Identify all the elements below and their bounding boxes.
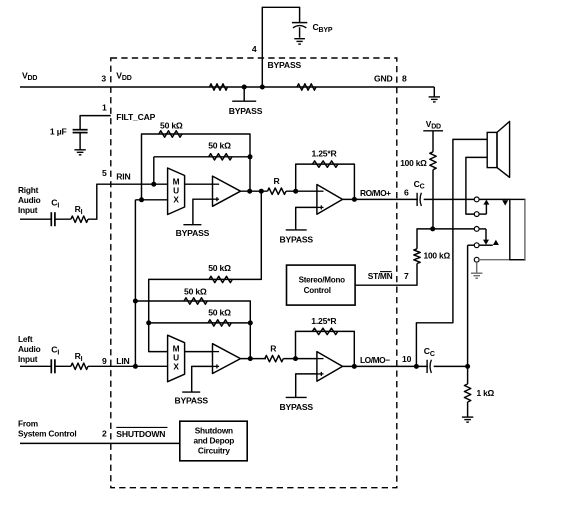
wire R to B2 (283, 358, 317, 360)
label Left Audio Input (18, 334, 41, 364)
resistor on rail left (210, 84, 228, 90)
pin 2 label (102, 429, 107, 439)
VDD rail bar (423, 130, 443, 132)
svg-text:1: 1 (102, 102, 107, 112)
junction dot fbB left (133, 299, 138, 304)
svg-text:RIN: RIN (116, 172, 130, 182)
svg-text:From: From (18, 419, 38, 429)
svg-text:50 kΩ: 50 kΩ (208, 140, 231, 150)
capacitor 1uF (73, 130, 88, 133)
wire 50k cross row (149, 191, 262, 323)
box Stereo/Mono Control (287, 265, 356, 305)
wire mux2 input (135, 199, 167, 201)
wire 50k fbB row (135, 301, 250, 359)
bypass tap mux B (174, 392, 208, 406)
svg-text:X: X (173, 194, 179, 204)
wire speaker minus (466, 157, 487, 214)
wire pin4 to top rail (262, 7, 299, 87)
label 1uF (50, 126, 67, 136)
label ST/MN (368, 271, 393, 281)
wire mux B to op (185, 351, 213, 353)
bypass tap A2 (279, 230, 313, 245)
resistor 1.25R lower (312, 328, 338, 334)
label 50k lower fbC (208, 307, 231, 317)
bypass tap B2 (279, 397, 313, 412)
junction dot A1 out (247, 189, 252, 194)
pin 1 label (102, 102, 107, 112)
junction dot LO jack node (465, 364, 470, 369)
ground under CBYP (294, 39, 305, 44)
svg-text:50 kΩ: 50 kΩ (208, 263, 231, 273)
junction dot B2 in (293, 356, 298, 361)
resistor 50k cross (209, 276, 232, 282)
switch arrow 1-2 (479, 200, 489, 215)
svg-text:System Control: System Control (18, 429, 77, 439)
wire left input (20, 365, 51, 367)
label 100k stmn (424, 250, 451, 260)
wire VDD rail (20, 86, 434, 88)
label 50k upper fb2 (208, 140, 231, 150)
label RI left (75, 351, 83, 363)
svg-text:10: 10 (402, 354, 412, 364)
wire CI to RI left (55, 365, 71, 367)
svg-text:and Depop: and Depop (193, 436, 234, 446)
wire 100k vdd down (432, 170, 434, 229)
label 50k cross (208, 263, 231, 273)
svg-text:Input: Input (18, 205, 38, 215)
wire A1 plus to bypass (193, 199, 213, 225)
label Right Audio Input (18, 185, 41, 215)
label LO/MO- (360, 355, 390, 365)
wire 1k to ground (467, 402, 469, 417)
speaker cone (497, 121, 510, 177)
wire RI up to RIN (88, 184, 168, 219)
svg-text:R: R (270, 343, 277, 353)
resistor 100k vdd (430, 152, 436, 170)
wire B1 plus to bypass (192, 366, 213, 392)
label 50k upper fb1 (160, 120, 183, 130)
wire right input (20, 218, 51, 220)
label LIN (116, 356, 129, 366)
junction dot pin4 (260, 85, 265, 90)
ground under 1uF (74, 150, 85, 155)
jack contact 2 (474, 212, 479, 217)
wire c4 to LO node (467, 245, 469, 366)
svg-text:8: 8 (402, 74, 407, 84)
resistor on rail right (297, 84, 316, 90)
label 100k vdd (400, 158, 427, 168)
resistor R upper (268, 188, 287, 194)
wire B1 out (241, 358, 267, 360)
wire 50k fbC row (149, 322, 251, 324)
junction dot fbC left (146, 320, 151, 325)
label FILT_CAP (116, 112, 155, 122)
svg-text:Circuitry: Circuitry (198, 446, 231, 456)
wire FILT_CAP (80, 116, 111, 130)
svg-text:R: R (273, 176, 280, 186)
junction dot B1 out (248, 356, 253, 361)
wire shutdown (20, 442, 180, 444)
junction dot A2 in (293, 189, 298, 194)
label VDD inside (116, 70, 131, 82)
svg-text:X: X (173, 362, 179, 372)
bypass tap mux A (176, 225, 210, 239)
op-amp B2 gain (316, 352, 342, 382)
svg-text:1.25*R: 1.25*R (311, 316, 337, 326)
svg-text:ST/MN: ST/MN (368, 271, 393, 281)
plug tip arrow (502, 200, 508, 205)
resistor 50k lower fbB (184, 298, 207, 304)
svg-text:9: 9 (102, 356, 107, 366)
wire GND drop (433, 87, 435, 97)
svg-text:100 kΩ: 100 kΩ (424, 250, 451, 260)
svg-text:BYPASS: BYPASS (174, 396, 208, 406)
label RIN (116, 172, 130, 182)
svg-text:1.25*R: 1.25*R (311, 149, 337, 159)
capacitor CC lower (427, 360, 434, 374)
resistor 1.25R upper (313, 161, 339, 167)
resistor R lower (265, 355, 284, 361)
svg-text:Input: Input (18, 354, 38, 364)
wire tip line (479, 198, 510, 200)
svg-text:BYPASS: BYPASS (268, 60, 302, 70)
wire VDD to 100k (432, 131, 434, 152)
jack contact 3 (474, 227, 479, 232)
mux U1B (168, 335, 185, 382)
svg-text:50 kΩ: 50 kΩ (160, 120, 183, 130)
svg-text:5: 5 (102, 168, 107, 178)
junction dot bypass-T (242, 85, 247, 90)
svg-text:RO/MO+: RO/MO+ (360, 188, 391, 198)
svg-text:4: 4 (252, 44, 257, 54)
svg-text:LO/MO−: LO/MO− (360, 355, 390, 365)
svg-text:FILT_CAP: FILT_CAP (116, 112, 155, 122)
svg-text:Stereo/Mono: Stereo/Mono (299, 276, 346, 285)
svg-text:1 kΩ: 1 kΩ (477, 388, 495, 398)
pin 6 label (404, 188, 409, 198)
jack contact 1 (474, 197, 479, 202)
wire A1 out (241, 190, 268, 192)
wire speaker plus (416, 139, 487, 366)
wire 100k stmn up (417, 229, 433, 249)
wire RIN node up (153, 157, 155, 184)
mux U1A (168, 168, 185, 215)
pin 9 label (102, 356, 107, 366)
switch arrow 3-4 (479, 229, 489, 245)
wire 1.25R fb lower (296, 331, 355, 366)
IC boundary (dashed box) (111, 58, 397, 488)
capacitor CC upper (417, 193, 424, 207)
resistor 50k lower fbC (208, 320, 231, 326)
svg-text:BYPASS: BYPASS (229, 106, 263, 116)
wire mux A to op (185, 183, 213, 185)
label CBYP (313, 22, 333, 34)
svg-text:Audio: Audio (18, 344, 41, 354)
pin 5 label (102, 168, 107, 178)
svg-text:7: 7 (404, 271, 409, 281)
capacitor CBYP (292, 23, 307, 38)
jack contact 4 (474, 243, 479, 248)
wire LO output (343, 365, 468, 367)
svg-text:Shutdown: Shutdown (195, 426, 233, 436)
ground jack sleeve (471, 273, 482, 278)
label VDD left (22, 70, 37, 82)
svg-text:50 kΩ: 50 kΩ (184, 287, 207, 297)
svg-text:50 kΩ: 50 kΩ (208, 307, 231, 317)
svg-text:LIN: LIN (116, 356, 129, 366)
label 1.25R lower (311, 316, 337, 326)
label 50k lower fbB (184, 287, 207, 297)
wire cap to ground (79, 133, 81, 150)
wire 1.25R fb upper (296, 164, 355, 199)
wire R to A2 (286, 190, 317, 192)
wire 50k fb2 row (154, 156, 250, 158)
box Shutdown Depop (180, 421, 247, 461)
BYPASS pin4 name (268, 60, 302, 70)
plug ring arrow (479, 240, 499, 245)
junction dot fbC right (248, 320, 253, 325)
label CI right (51, 198, 59, 210)
pin 10 label (402, 354, 412, 364)
svg-text:GND: GND (374, 74, 393, 84)
label R lower (270, 343, 277, 353)
wire mux1 lower input (149, 323, 168, 352)
resistor RI left (71, 363, 88, 369)
wire B2 plus to bypass (296, 374, 317, 398)
pin 7 label (404, 271, 409, 281)
label CC upper (414, 179, 425, 191)
wire contact4 stub (468, 244, 475, 246)
junction dot LO speaker tap (414, 364, 419, 369)
speaker driver box (487, 132, 497, 167)
wire sleeve line (479, 259, 525, 261)
label RO/MO+ (360, 188, 391, 198)
wire ST/MN (355, 264, 417, 286)
wire pullup to jack (433, 228, 475, 230)
wire 50k fb1 row (142, 134, 251, 200)
label CC lower (424, 346, 435, 358)
svg-text:SHUTDOWN: SHUTDOWN (116, 429, 165, 439)
svg-text:Control: Control (304, 286, 331, 295)
jack body (510, 199, 525, 259)
svg-text:2: 2 (102, 429, 107, 439)
label 1k (477, 388, 495, 398)
wire cross-channel down (134, 200, 136, 366)
wire sleeve ground stem (476, 262, 478, 273)
capacitor CI left (51, 359, 55, 373)
op-amp A1 buffer (212, 176, 241, 206)
label From System Control (18, 419, 77, 439)
junction dot RO fb (352, 197, 357, 202)
pin 4 label (252, 44, 257, 54)
jack contact 5 (474, 257, 479, 262)
wire 1k drop (467, 366, 469, 384)
wire RI to LIN (88, 365, 168, 367)
svg-text:Left: Left (18, 334, 33, 344)
junction dot cross tap (259, 189, 264, 194)
pin 8 label (402, 74, 407, 84)
wire RO output (343, 198, 475, 200)
ground at GND pin (429, 97, 440, 102)
svg-text:Audio: Audio (18, 195, 41, 205)
label CI left (51, 345, 59, 357)
bypass tap symbol (229, 87, 263, 116)
resistor RI right (71, 216, 88, 222)
svg-text:BYPASS: BYPASS (176, 228, 210, 238)
resistor 50k upper fb2 (209, 154, 232, 160)
svg-text:100 kΩ: 100 kΩ (400, 158, 427, 168)
resistor 50k upper fb1 (159, 131, 182, 137)
label VDD pullup (426, 119, 441, 131)
svg-text:1 µF: 1 µF (50, 126, 67, 136)
junction dot mux2 node (139, 197, 144, 202)
resistor 100k stmn (414, 249, 420, 264)
op-amp A2 gain (316, 185, 342, 215)
junction dot RIN node (151, 182, 156, 187)
label RI right (75, 204, 83, 216)
svg-text:Right: Right (18, 185, 39, 195)
label R upper (273, 176, 280, 186)
svg-text:6: 6 (404, 188, 409, 198)
capacitor CI right (51, 212, 55, 226)
ground under 1k (462, 417, 473, 422)
pin 3 label (101, 74, 106, 84)
svg-text:BYPASS: BYPASS (279, 235, 313, 245)
op-amp B1 buffer (212, 344, 241, 374)
junction dot pullup (430, 226, 435, 231)
label SHUTDOWN (116, 427, 167, 439)
junction dot LO fb (352, 364, 357, 369)
resistor 1k (464, 384, 470, 402)
label GND (374, 74, 393, 84)
svg-text:BYPASS: BYPASS (279, 402, 313, 412)
label 1.25R upper (311, 149, 337, 159)
wire A2 plus to bypass (296, 207, 317, 230)
wire CI to RI right (55, 218, 71, 220)
junction dot fb2 right (248, 154, 253, 159)
junction dot LIN node (133, 364, 138, 369)
svg-text:3: 3 (101, 74, 106, 84)
